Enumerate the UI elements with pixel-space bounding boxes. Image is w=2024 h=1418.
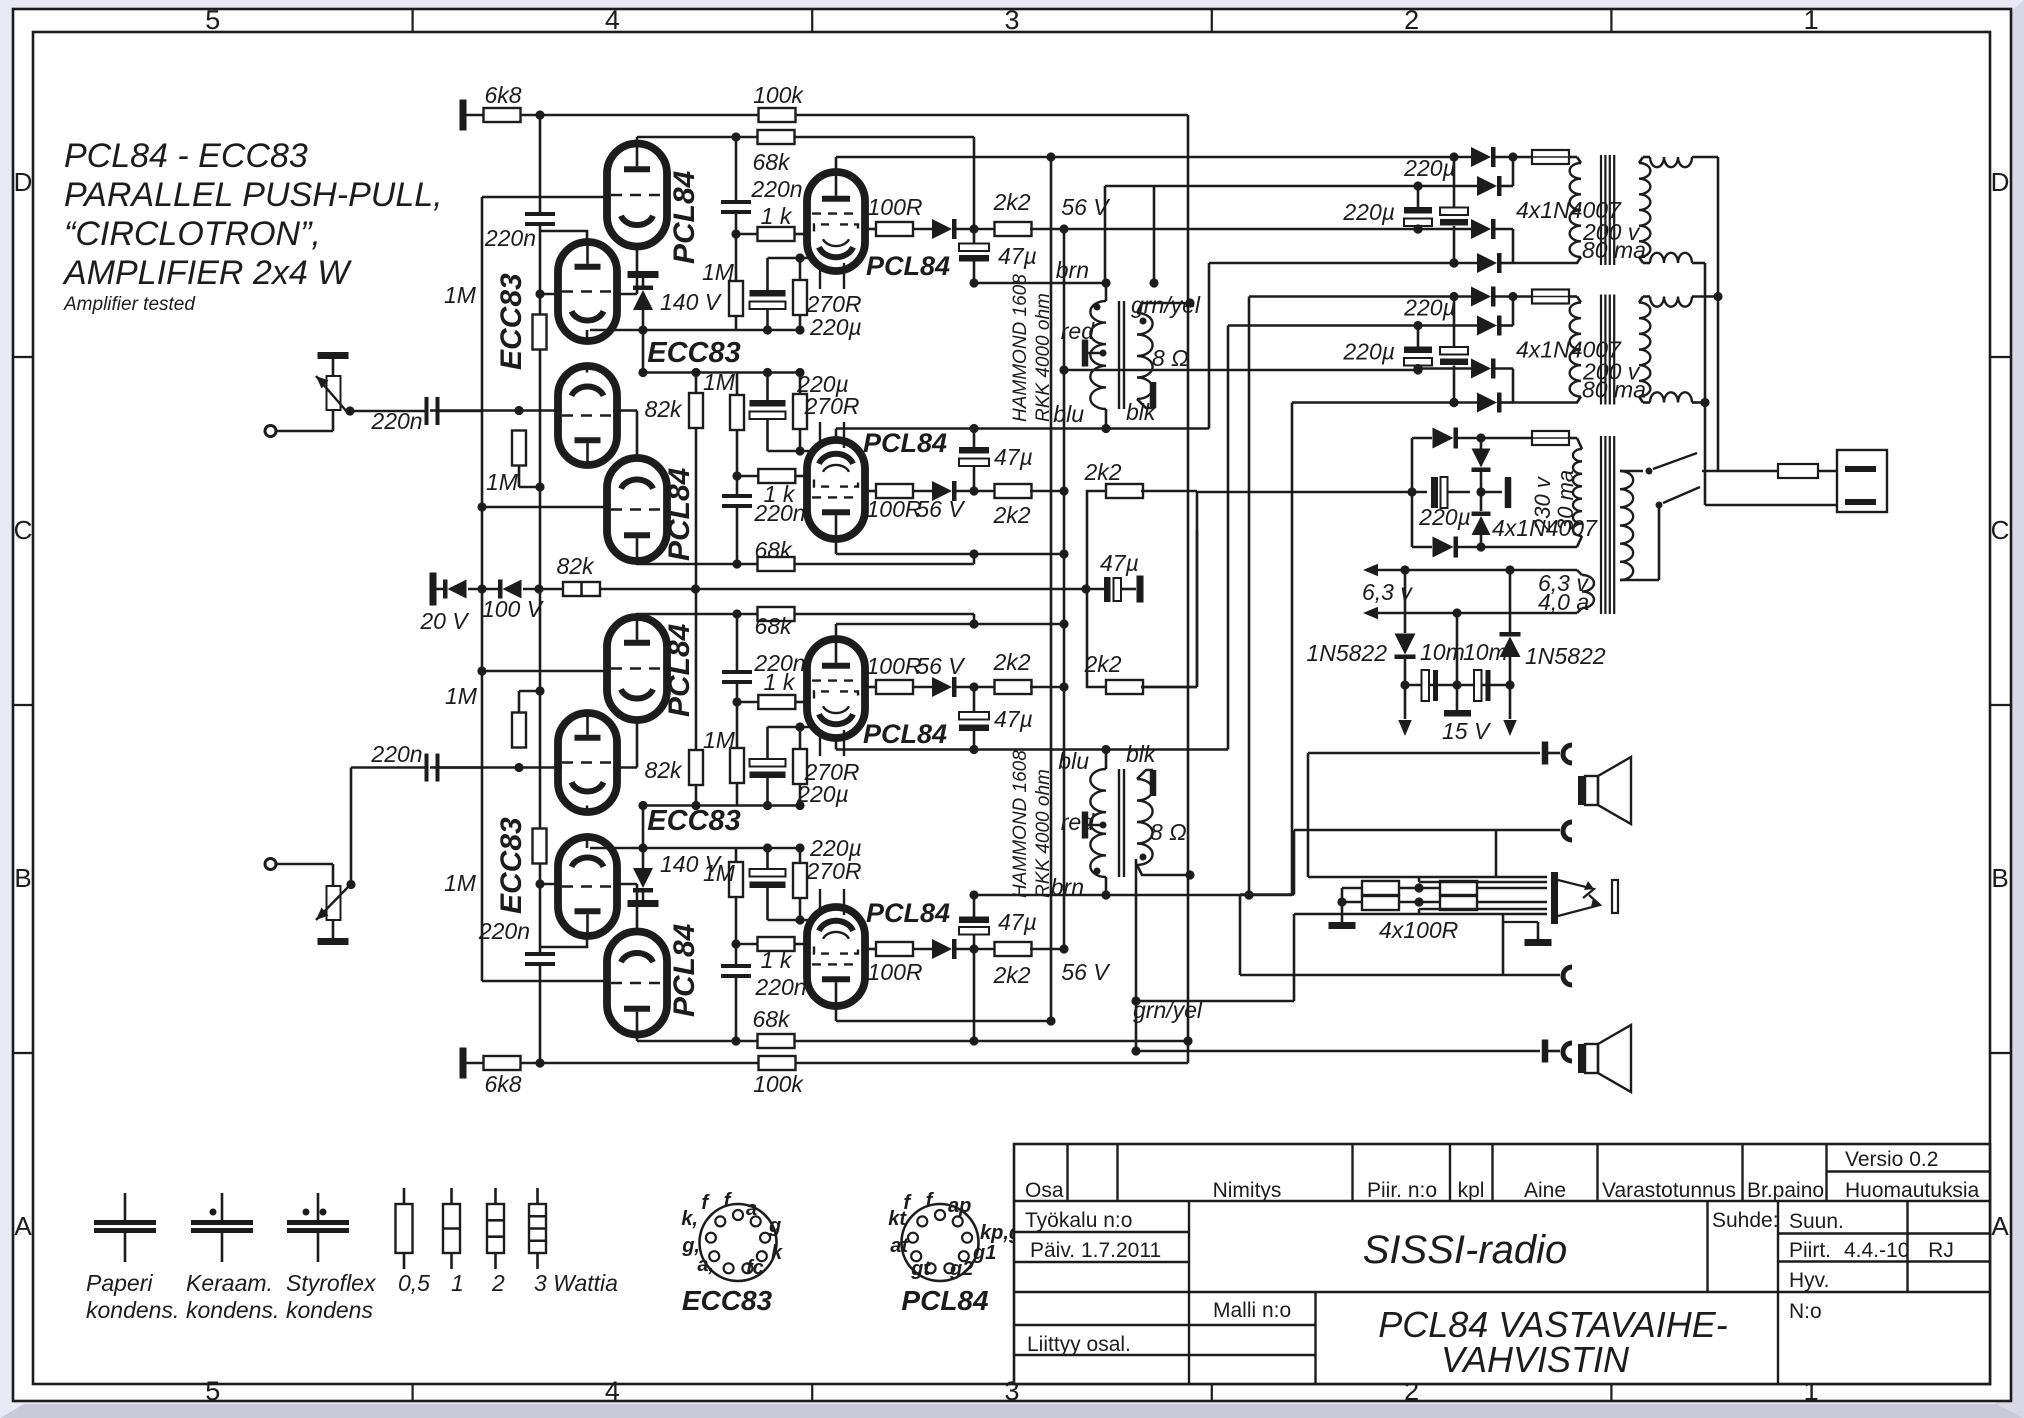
- svg-text:220n: 220n: [370, 741, 422, 767]
- svg-text:47µ: 47µ: [998, 243, 1037, 269]
- svg-text:PCL84: PCL84: [863, 719, 947, 749]
- svg-text:47µ: 47µ: [1100, 550, 1139, 576]
- svg-text:PCL84: PCL84: [863, 428, 947, 458]
- svg-text:2: 2: [1404, 5, 1419, 35]
- svg-text:kondens.: kondens.: [86, 1297, 179, 1323]
- svg-text:brn: brn: [1051, 874, 1084, 900]
- svg-text:A: A: [1991, 1211, 2009, 1241]
- svg-text:Osa: Osa: [1025, 1179, 1064, 1202]
- svg-text:Liittyy osal.: Liittyy osal.: [1027, 1333, 1131, 1356]
- svg-text:Piirt.: Piirt.: [1789, 1239, 1831, 1262]
- svg-text:2k2: 2k2: [992, 189, 1030, 215]
- svg-text:gt: gt: [910, 1258, 931, 1280]
- svg-text:30 ma: 30 ma: [1553, 470, 1578, 531]
- svg-text:1: 1: [451, 1270, 464, 1296]
- svg-text:270R: 270R: [804, 759, 860, 785]
- svg-text:10m: 10m: [1420, 639, 1465, 665]
- svg-text:Huomautuksia: Huomautuksia: [1845, 1179, 1980, 1202]
- svg-text:Versio 0.2: Versio 0.2: [1845, 1148, 1938, 1171]
- svg-text:4.4.-10: 4.4.-10: [1844, 1239, 1909, 1262]
- svg-text:Aine: Aine: [1524, 1179, 1566, 1202]
- svg-text:PCL84: PCL84: [663, 467, 696, 561]
- svg-text:220n: 220n: [370, 408, 422, 434]
- svg-text:blu: blu: [1053, 401, 1084, 427]
- svg-text:1M: 1M: [486, 469, 519, 495]
- svg-text:47µ: 47µ: [994, 444, 1033, 470]
- svg-text:82k: 82k: [556, 553, 595, 579]
- svg-text:68k: 68k: [752, 1006, 791, 1032]
- svg-text:5: 5: [205, 5, 220, 35]
- svg-text:2k2: 2k2: [992, 649, 1030, 675]
- svg-text:220µ: 220µ: [809, 314, 862, 340]
- svg-text:ECC83: ECC83: [647, 805, 741, 837]
- svg-text:1M: 1M: [703, 727, 736, 753]
- svg-text:HAMMOND 1608: HAMMOND 1608: [1010, 274, 1031, 422]
- svg-text:1 k: 1 k: [764, 669, 796, 695]
- svg-text:kt: kt: [888, 1208, 907, 1230]
- svg-text:PCL84: PCL84: [866, 251, 950, 281]
- svg-text:4: 4: [605, 5, 620, 35]
- svg-text:68k: 68k: [752, 149, 791, 175]
- svg-text:56 V: 56 V: [1061, 959, 1111, 985]
- svg-text:PCL84 - ECC83: PCL84 - ECC83: [64, 137, 308, 175]
- svg-text:red: red: [1061, 318, 1095, 344]
- svg-text:100k: 100k: [753, 1071, 804, 1097]
- svg-text:Paperi: Paperi: [86, 1270, 153, 1296]
- svg-text:100R: 100R: [867, 653, 922, 679]
- svg-text:220µ: 220µ: [1418, 504, 1471, 530]
- svg-text:HAMMOND 1608: HAMMOND 1608: [1010, 750, 1031, 898]
- svg-text:Keraam.: Keraam.: [186, 1270, 273, 1296]
- svg-text:5: 5: [205, 1376, 220, 1406]
- svg-text:140 V: 140 V: [660, 851, 723, 877]
- svg-text:RJ: RJ: [1928, 1239, 1954, 1262]
- svg-text:8 Ω: 8 Ω: [1152, 345, 1189, 371]
- svg-text:2k2: 2k2: [992, 502, 1030, 528]
- svg-text:ECC83: ECC83: [647, 337, 741, 369]
- svg-text:270R: 270R: [806, 291, 862, 317]
- svg-text:A: A: [14, 1211, 32, 1241]
- svg-text:100R: 100R: [867, 496, 922, 522]
- svg-text:a: a: [746, 1198, 757, 1220]
- svg-text:Malli n:o: Malli n:o: [1213, 1299, 1291, 1322]
- svg-text:Amplifier tested: Amplifier tested: [63, 294, 196, 315]
- svg-text:VAHVISTIN: VAHVISTIN: [1441, 1339, 1630, 1380]
- svg-text:PCL84: PCL84: [668, 170, 701, 264]
- svg-text:g2: g2: [949, 1258, 973, 1280]
- svg-text:Päiv. 1.7.2011: Päiv. 1.7.2011: [1030, 1239, 1161, 1262]
- svg-text:1M: 1M: [445, 683, 478, 709]
- svg-text:100R: 100R: [868, 194, 923, 220]
- svg-text:RKK 4000 ohm: RKK 4000 ohm: [1033, 769, 1054, 898]
- svg-text:4: 4: [605, 1376, 620, 1406]
- svg-text:100k: 100k: [753, 82, 804, 108]
- svg-text:Br.paino: Br.paino: [1747, 1179, 1824, 1202]
- svg-text:B: B: [1991, 863, 2008, 893]
- svg-text:56 V: 56 V: [1061, 194, 1111, 220]
- svg-text:270R: 270R: [806, 858, 862, 884]
- svg-text:1: 1: [1804, 5, 1819, 35]
- svg-text:4,0 a: 4,0 a: [1538, 589, 1589, 615]
- svg-text:Työkalu n:o: Työkalu n:o: [1025, 1209, 1132, 1232]
- svg-text:1M: 1M: [703, 369, 736, 395]
- svg-text:80 ma: 80 ma: [1582, 377, 1646, 403]
- svg-text:20 V: 20 V: [419, 608, 470, 634]
- svg-text:g,: g,: [681, 1235, 700, 1257]
- svg-text:80 ma: 80 ma: [1582, 237, 1646, 263]
- svg-text:56 V: 56 V: [916, 496, 966, 522]
- svg-text:C: C: [14, 515, 33, 545]
- svg-text:270R: 270R: [804, 393, 860, 419]
- svg-text:220µ: 220µ: [1342, 339, 1395, 365]
- svg-text:blk: blk: [1126, 399, 1157, 425]
- svg-text:Varastotunnus: Varastotunnus: [1602, 1179, 1736, 1202]
- svg-text:1N5822: 1N5822: [1306, 640, 1387, 666]
- svg-text:6k8: 6k8: [484, 82, 521, 108]
- svg-text:kondens.: kondens.: [186, 1297, 279, 1323]
- svg-text:brn: brn: [1056, 257, 1089, 283]
- svg-text:“CIRCLOTRON”,: “CIRCLOTRON”,: [64, 215, 321, 253]
- svg-text:PCL84: PCL84: [901, 1285, 989, 1316]
- svg-text:g: g: [768, 1215, 781, 1237]
- svg-text:ECC83: ECC83: [495, 817, 528, 914]
- svg-text:2: 2: [491, 1270, 505, 1296]
- svg-text:6k8: 6k8: [484, 1071, 521, 1097]
- svg-text:SISSI-radio: SISSI-radio: [1363, 1228, 1568, 1272]
- svg-text:2k2: 2k2: [1083, 651, 1121, 677]
- svg-text:3: 3: [1004, 5, 1019, 35]
- svg-text:15 V: 15 V: [1442, 718, 1492, 744]
- svg-text:100R: 100R: [868, 959, 923, 985]
- svg-text:D: D: [1991, 167, 2010, 197]
- svg-text:8 Ω: 8 Ω: [1150, 819, 1187, 845]
- svg-text:1M: 1M: [444, 282, 477, 308]
- svg-text:1M: 1M: [444, 870, 477, 896]
- svg-text:220µ: 220µ: [1403, 155, 1456, 181]
- svg-text:220n: 220n: [478, 918, 530, 944]
- svg-text:fc: fc: [746, 1257, 764, 1279]
- svg-text:2k2: 2k2: [1083, 459, 1121, 485]
- svg-text:Suhde:: Suhde:: [1712, 1209, 1779, 1232]
- svg-text:k,: k,: [681, 1208, 698, 1230]
- svg-text:Styroflex: Styroflex: [286, 1270, 377, 1296]
- svg-text:56 V: 56 V: [916, 653, 966, 679]
- svg-text:g1: g1: [972, 1242, 996, 1264]
- svg-text:47µ: 47µ: [994, 706, 1033, 732]
- svg-text:220n: 220n: [484, 225, 536, 251]
- svg-text:N:o: N:o: [1789, 1300, 1822, 1323]
- svg-text:kondens: kondens: [286, 1297, 373, 1323]
- svg-text:Nimitys: Nimitys: [1213, 1179, 1282, 1202]
- svg-text:220µ: 220µ: [1403, 295, 1456, 321]
- svg-text:grn/yel: grn/yel: [1133, 997, 1203, 1023]
- svg-text:2k2: 2k2: [992, 962, 1030, 988]
- svg-text:230 v: 230 v: [1530, 475, 1555, 532]
- svg-text:68k: 68k: [754, 537, 793, 563]
- svg-text:1 k: 1 k: [761, 947, 793, 973]
- svg-text:82k: 82k: [644, 396, 683, 422]
- svg-text:a,: a,: [697, 1254, 714, 1276]
- svg-text:kpl: kpl: [1458, 1179, 1485, 1202]
- svg-text:47µ: 47µ: [998, 909, 1037, 935]
- svg-text:Suun.: Suun.: [1789, 1210, 1844, 1233]
- svg-text:ECC83: ECC83: [682, 1285, 773, 1316]
- svg-text:140 V: 140 V: [660, 289, 723, 315]
- svg-text:82k: 82k: [644, 757, 683, 783]
- svg-text:1 k: 1 k: [761, 203, 793, 229]
- svg-text:Piir. n:o: Piir. n:o: [1367, 1179, 1437, 1202]
- svg-text:220µ: 220µ: [1342, 199, 1395, 225]
- svg-text:blu: blu: [1058, 748, 1089, 774]
- svg-text:at: at: [890, 1235, 909, 1257]
- svg-text:1N5822: 1N5822: [1525, 643, 1606, 669]
- svg-text:6,3 v: 6,3 v: [1362, 579, 1413, 605]
- svg-text:10m: 10m: [1463, 639, 1508, 665]
- svg-text:grn/yel: grn/yel: [1131, 292, 1201, 318]
- svg-text:ECC83: ECC83: [495, 273, 528, 370]
- svg-text:blk: blk: [1126, 741, 1157, 767]
- svg-text:C: C: [1991, 515, 2010, 545]
- svg-text:ap: ap: [948, 1195, 971, 1217]
- svg-text:PCL84: PCL84: [663, 623, 696, 717]
- svg-text:220n: 220n: [750, 176, 802, 202]
- svg-text:Hyv.: Hyv.: [1789, 1269, 1829, 1292]
- svg-text:PARALLEL PUSH-PULL,: PARALLEL PUSH-PULL,: [64, 176, 443, 214]
- svg-text:k: k: [771, 1242, 783, 1264]
- svg-text:1M: 1M: [702, 259, 735, 285]
- svg-text:RKK 4000 ohm: RKK 4000 ohm: [1033, 293, 1054, 422]
- svg-text:PCL84: PCL84: [668, 923, 701, 1017]
- svg-text:PCL84: PCL84: [866, 898, 950, 928]
- svg-text:4x100R: 4x100R: [1379, 917, 1458, 943]
- svg-text:100 V: 100 V: [482, 596, 545, 622]
- svg-text:0,5: 0,5: [398, 1270, 430, 1296]
- svg-text:220n: 220n: [754, 974, 806, 1000]
- svg-text:D: D: [14, 167, 33, 197]
- svg-text:AMPLIFIER 2x4 W: AMPLIFIER 2x4 W: [62, 254, 352, 292]
- svg-text:red: red: [1061, 809, 1095, 835]
- svg-text:B: B: [14, 863, 31, 893]
- svg-text:68k: 68k: [754, 613, 793, 639]
- svg-text:3 Wattia: 3 Wattia: [534, 1270, 618, 1296]
- svg-text:220n: 220n: [753, 500, 805, 526]
